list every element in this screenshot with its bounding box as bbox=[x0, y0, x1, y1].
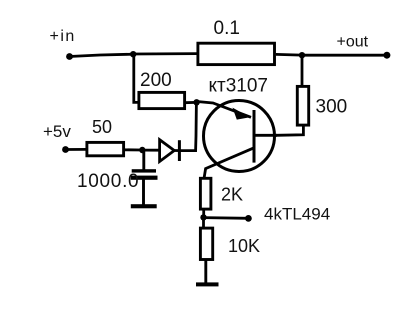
wire junction B down to resistor 300 bbox=[301, 55, 304, 86]
svg-text:200: 200 bbox=[140, 70, 172, 91]
ground (bottom) bbox=[196, 282, 219, 286]
wire 2K to junction E bbox=[202, 209, 205, 218]
terminal dot TL494 bbox=[245, 215, 252, 222]
wire junction A down to resistor 200 bbox=[134, 54, 139, 102]
svg-text:300: 300 bbox=[316, 97, 348, 118]
capacitor C2 1000.0 bbox=[77, 150, 158, 205]
svg-text:+5v: +5v bbox=[43, 122, 71, 141]
junction dot D bbox=[139, 147, 145, 153]
wire junction D to diode anode bbox=[142, 149, 160, 152]
wire +in to junction A bbox=[70, 54, 134, 56]
svg-text:50: 50 bbox=[92, 117, 112, 137]
wire 0.1 to junction B bbox=[276, 53, 302, 56]
svg-text:+out: +out bbox=[337, 33, 369, 50]
svg-text:0.1: 0.1 bbox=[214, 18, 240, 39]
junction dot A bbox=[130, 51, 136, 57]
wire 10K to ground bbox=[204, 260, 207, 285]
junction dot B bbox=[299, 52, 305, 58]
resistor R1 200 bbox=[139, 70, 185, 109]
wire 50 to junction D bbox=[124, 148, 143, 151]
ground (capacitor) bbox=[131, 204, 157, 208]
junction dot C bbox=[193, 99, 199, 105]
svg-text:+in: +in bbox=[50, 28, 76, 45]
resistor R2 300 bbox=[297, 86, 347, 125]
capacitor 0.1 (box symbol) bbox=[198, 18, 275, 65]
junction dot E bbox=[200, 214, 206, 220]
resistor R5 10K bbox=[200, 228, 260, 259]
wire junction E to 10K bbox=[202, 217, 205, 228]
svg-text:кт3107: кт3107 bbox=[209, 76, 269, 97]
resistor R4 2K bbox=[200, 178, 243, 209]
node +out label bbox=[337, 33, 369, 50]
wire junction E to TL494 terminal bbox=[204, 216, 249, 219]
wire junction B to +out terminal bbox=[302, 54, 387, 57]
terminal dot +out bbox=[383, 52, 390, 59]
node +5v label bbox=[43, 122, 71, 141]
terminal dot +5v bbox=[62, 146, 69, 153]
svg-text:1000.0: 1000.0 bbox=[77, 171, 139, 192]
wire junction C down to diode cathode bbox=[180, 102, 197, 150]
label 4kTL494 bbox=[264, 205, 330, 224]
node +in label bbox=[50, 28, 76, 45]
wire junction A to capacitor 0.1 bbox=[133, 52, 197, 55]
diode D1 bbox=[160, 140, 181, 162]
transistor Q1 KT3107 bbox=[197, 76, 277, 178]
svg-text:2K: 2K bbox=[221, 185, 243, 205]
svg-text:10K: 10K bbox=[228, 236, 260, 256]
wire +5v to resistor 50 bbox=[66, 148, 88, 151]
svg-text:4kTL494: 4kTL494 bbox=[264, 205, 330, 224]
wire 200 to junction C bbox=[185, 101, 197, 104]
wire base to resistor 300 bbox=[276, 126, 303, 135]
resistor R3 50 bbox=[87, 117, 124, 156]
terminal dot +in bbox=[66, 53, 73, 60]
